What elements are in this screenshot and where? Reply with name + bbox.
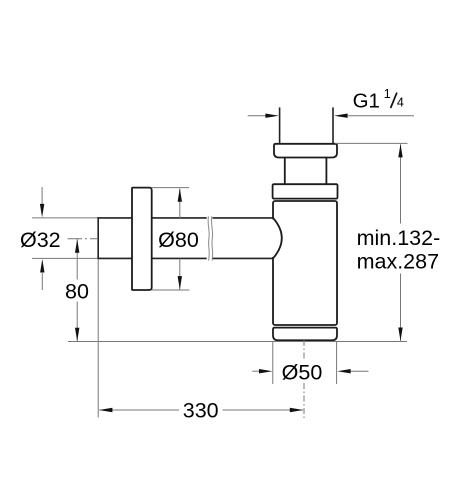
- svg-text:330: 330: [183, 399, 219, 423]
- svg-text:Ø80: Ø80: [158, 228, 199, 252]
- svg-text:4: 4: [397, 96, 404, 110]
- svg-text:min.132-: min.132-: [357, 226, 441, 250]
- svg-text:Ø32: Ø32: [20, 228, 61, 252]
- svg-text:max.287: max.287: [357, 249, 439, 273]
- svg-text:80: 80: [65, 279, 89, 303]
- svg-text:1: 1: [384, 87, 391, 101]
- svg-text:G1: G1: [353, 89, 380, 112]
- svg-text:Ø50: Ø50: [282, 360, 323, 384]
